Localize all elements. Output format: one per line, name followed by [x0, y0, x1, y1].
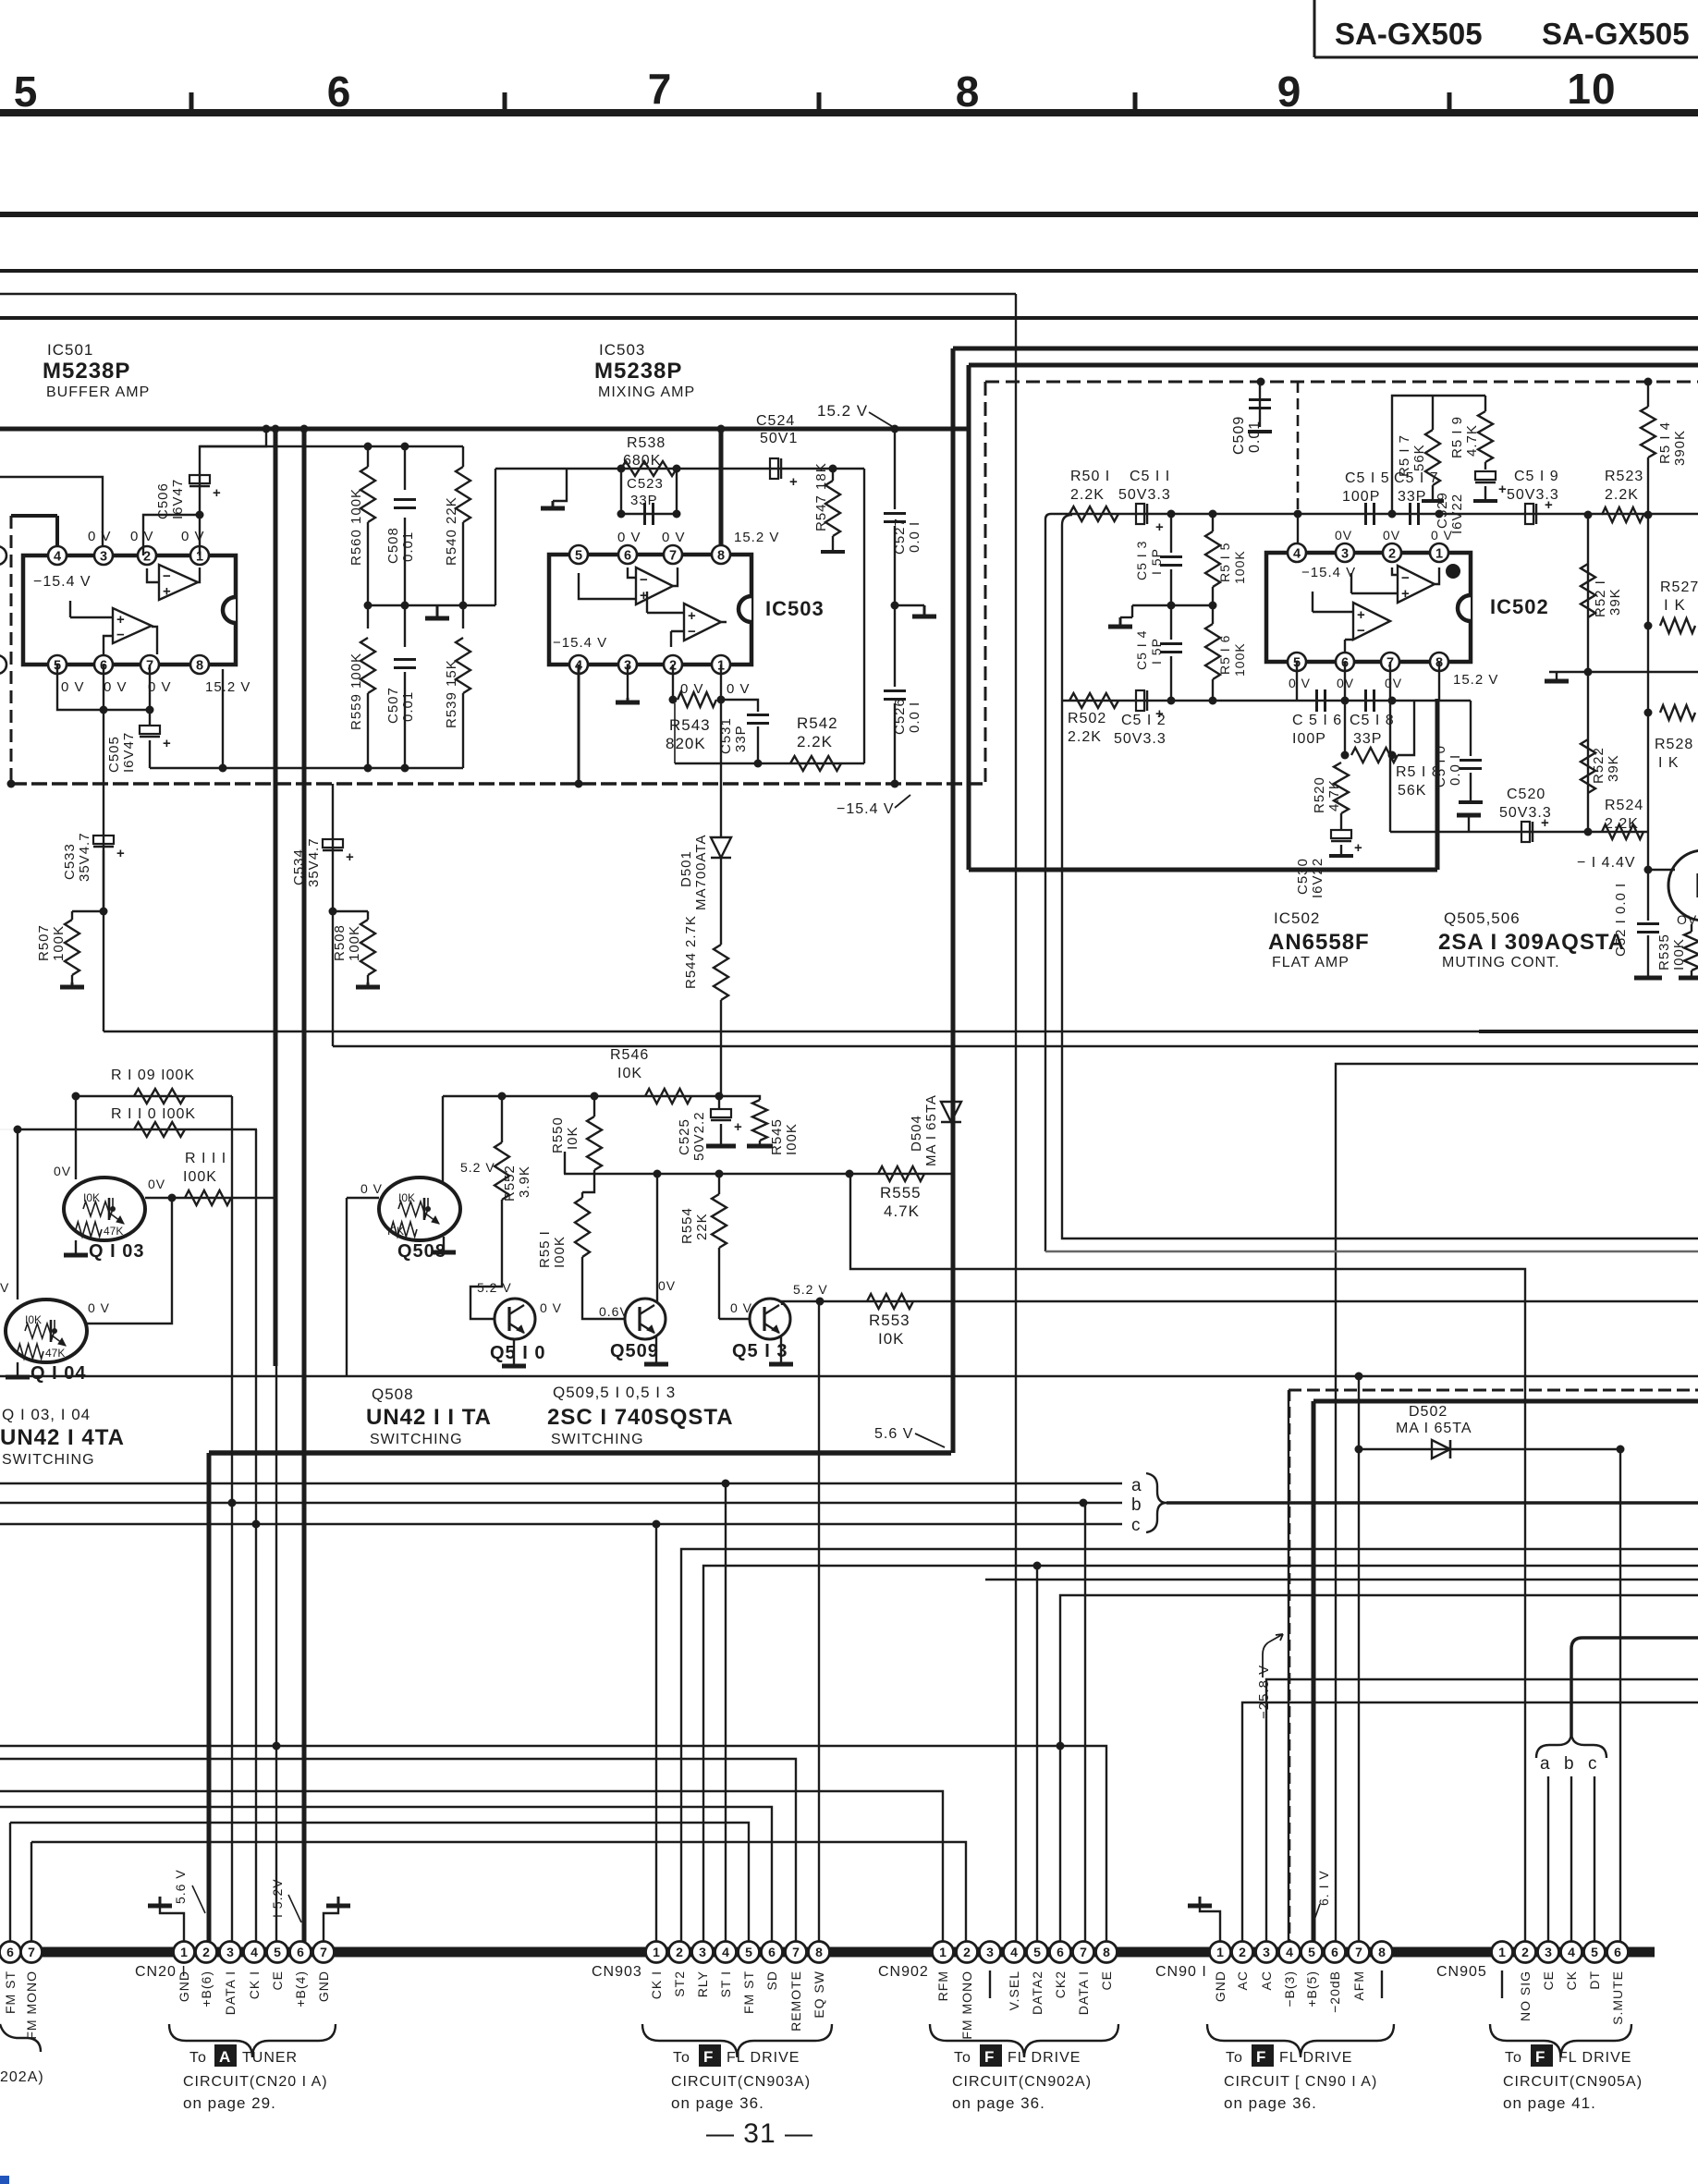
IC503 pin 8 [712, 545, 730, 564]
IC503 pin 3 [618, 655, 637, 674]
inner block border left edge [967, 365, 971, 870]
capacitor C527 0.01 [884, 512, 906, 515]
Q104 internal base resistor [25, 1324, 55, 1338]
svg-text:6: 6 [624, 549, 631, 564]
connector CN903 pin 5 [739, 1942, 760, 1963]
line c [0, 1523, 1122, 1525]
svg-text:SWITCHING: SWITCHING [551, 1432, 644, 1447]
svg-text:4: 4 [250, 1945, 258, 1959]
IC503 pin 7 [664, 545, 682, 564]
bus wire [0, 269, 1698, 273]
connector CN201 pin 7 [313, 1942, 335, 1963]
thick vertical +B(4) 15.2V rail [302, 429, 307, 1952]
svg-text:c: c [1588, 1754, 1598, 1774]
resistor R111 100K [185, 1190, 231, 1205]
svg-text:R522: R522 [1591, 747, 1606, 784]
svg-text:I6V22: I6V22 [1310, 858, 1325, 898]
wire AFM riser [1358, 1449, 1360, 1952]
svg-text:SD: SD [764, 1970, 779, 1990]
IC501 pin 6 [94, 655, 113, 674]
Q509 emitter ground [655, 1336, 657, 1364]
IC502 pin 3 [1336, 543, 1354, 562]
capacitor C507 [404, 605, 406, 647]
mid ground wire [1549, 671, 1698, 673]
IC503 pin 2 [664, 655, 682, 674]
svg-text:R546: R546 [610, 1047, 649, 1063]
svg-text:−15.4 V: −15.4 V [1301, 565, 1356, 580]
svg-text:CN902: CN902 [878, 1964, 929, 1980]
Q103 internals [112, 1198, 114, 1209]
resistor R501 2.2K [1069, 506, 1118, 521]
svg-text:6: 6 [1331, 1945, 1338, 1959]
junction on dashed border [1257, 378, 1265, 386]
connector CN201 pin 5 [267, 1942, 288, 1963]
thick +B(6) drop [207, 1453, 212, 1952]
svg-text:3: 3 [226, 1945, 234, 1959]
resistor R546 10K [645, 1089, 691, 1104]
leader 6.1V [1313, 1904, 1320, 1922]
resistor R521 39K zigzag [1581, 564, 1595, 617]
svg-text:CK I: CK I [247, 1970, 262, 1999]
svg-text:a: a [1131, 1476, 1142, 1495]
resistor R519 4.7K [1484, 396, 1486, 411]
svg-text:15.2 V: 15.2 V [817, 402, 868, 420]
svg-text:15.2 V: 15.2 V [205, 679, 250, 695]
svg-text:4.7K: 4.7K [1326, 779, 1342, 811]
decoupling column wire [894, 429, 896, 509]
svg-text:+: + [163, 584, 171, 600]
svg-text:on page 36.: on page 36. [952, 2094, 1045, 2112]
svg-text:on page 36.: on page 36. [1224, 2094, 1317, 2112]
C520 wire [1390, 831, 1649, 833]
svg-text:CN903: CN903 [592, 1964, 642, 1980]
thick wire to mute bus [969, 868, 1437, 872]
pin5 wire [1296, 662, 1298, 701]
junctions [1167, 510, 1176, 519]
wire SD y1955 [0, 1807, 772, 1952]
connector CN902 pin 6 [1050, 1942, 1071, 1963]
wire pin4 stub [1297, 514, 1299, 553]
svg-text:To: To [1226, 2050, 1243, 2066]
junction [1584, 511, 1593, 519]
svg-text:47K: 47K [104, 1225, 123, 1238]
svg-text:SWITCHING: SWITCHING [2, 1452, 95, 1468]
svg-text:C527: C527 [892, 518, 908, 555]
svg-text:7: 7 [1080, 1945, 1087, 1959]
svg-text:on page 36.: on page 36. [671, 2094, 764, 2112]
pin8 thick drop [1435, 699, 1440, 870]
svg-text:−25.8 V: −25.8 V [1256, 1665, 1272, 1719]
svg-text:I00K: I00K [784, 1123, 800, 1155]
ground stub near pin7 net [1468, 815, 1470, 832]
resistor R522 39K zigzag [1581, 739, 1595, 793]
svg-text:R540 22K: R540 22K [444, 496, 459, 566]
svg-text:To: To [189, 2050, 207, 2066]
-20dB feed wire [1336, 1064, 1698, 1952]
block border (thick) top edge [953, 347, 1698, 351]
op-amp IC501b wires [70, 601, 157, 658]
label blank [1381, 1970, 1383, 1998]
svg-text:CN905: CN905 [1436, 1964, 1487, 1980]
svg-text:50V2.2: 50V2.2 [691, 1111, 707, 1161]
svg-text:5.2 V: 5.2 V [460, 1160, 495, 1175]
dashed block border top edge [985, 381, 1698, 384]
resistor R545 100K [719, 1096, 760, 1100]
leader -25.8V [1263, 1634, 1283, 1678]
resistor R542 2.2K [790, 756, 841, 771]
Q508 internal base resistor [398, 1202, 428, 1216]
svg-text:I6V47: I6V47 [121, 732, 137, 773]
R518/R520 net [1344, 701, 1346, 755]
connector CN902 pin 4 [1004, 1942, 1025, 1963]
svg-text:0V: 0V [1383, 528, 1400, 543]
capacitor C510 0.01 [1470, 701, 1472, 756]
connector CN905 pin 4 [1561, 1942, 1582, 1963]
CN201 pin7 ground wire [324, 1906, 338, 1942]
svg-text:6: 6 [297, 1945, 304, 1959]
thick mute return corner [209, 1450, 951, 1456]
IC501 notch [223, 597, 236, 623]
svg-text:ST2: ST2 [672, 1970, 687, 1997]
junction [891, 780, 899, 788]
connector CN905 pin 5 [1584, 1942, 1606, 1963]
R110 wire [18, 1129, 257, 1130]
svg-text:−20dB: −20dB [1327, 1970, 1342, 2013]
feedback bottom wire [675, 763, 864, 764]
wire pin7 net [146, 706, 154, 714]
Q513 collector wire [782, 1301, 820, 1305]
svg-text:IC503: IC503 [765, 597, 825, 620]
resistor R551 100K [581, 1192, 583, 1198]
svg-text:0V: 0V [148, 1177, 165, 1191]
svg-text:Q508: Q508 [372, 1385, 414, 1403]
wire FM MONO y1993 [31, 1842, 966, 1952]
transistor Q104 (digital) [6, 1299, 87, 1362]
connector CN903 pin 8 [809, 1942, 830, 1963]
connector CN902 pin 7 [1073, 1942, 1094, 1963]
wire C534 net [332, 784, 334, 911]
capacitor C511 50V3.3 (electrolytic) [1136, 504, 1144, 524]
connector CN902 pin 5 [1027, 1942, 1048, 1963]
wire RFM y1938 [0, 1791, 943, 1952]
wire a to CN905 [1547, 1776, 1549, 1952]
svg-text:−B(3): −B(3) [1282, 1970, 1297, 2007]
svg-text:22K: 22K [694, 1213, 710, 1240]
svg-text:I0K: I0K [83, 1191, 100, 1204]
svg-text:SA-GX505: SA-GX505 [1335, 17, 1483, 51]
junction [891, 602, 899, 610]
svg-text:+: + [346, 849, 355, 865]
svg-text:0 V: 0 V [540, 1300, 562, 1315]
svg-text:2: 2 [1521, 1945, 1529, 1959]
svg-text:V: V [0, 1280, 9, 1295]
svg-text:5: 5 [1308, 1945, 1315, 1959]
Q103 internal resistor 47K [76, 1222, 102, 1237]
svg-text:7: 7 [28, 1945, 35, 1959]
svg-text:6: 6 [1614, 1945, 1621, 1959]
svg-text:202A): 202A) [0, 2069, 44, 2085]
svg-text:8: 8 [1103, 1945, 1110, 1959]
svg-text:CE: CE [270, 1970, 285, 1990]
svg-text:R535: R535 [1656, 933, 1672, 970]
wire to R508 [333, 910, 368, 912]
svg-text:2: 2 [1239, 1945, 1246, 1959]
svg-text:Q509: Q509 [610, 1341, 659, 1361]
svg-text:0 V: 0 V [727, 681, 751, 697]
Q508 emitter [424, 1213, 439, 1224]
transistor Q505 (muting) [1668, 850, 1698, 921]
capacitor C517 33P [1409, 503, 1411, 525]
svg-text:OV: OV [1677, 912, 1697, 927]
CN201 pin1 ground wire [160, 1906, 184, 1942]
dashed box left edge [10, 516, 13, 784]
Q508 collector riser [442, 1096, 444, 1183]
svg-text:To: To [1505, 2050, 1522, 2066]
wire AC pin2 net [1242, 1702, 1698, 1952]
To F FL DRIVE text CN901 [1252, 2044, 1274, 2067]
capacitor C523 33P [620, 469, 622, 514]
svg-text:2: 2 [1388, 547, 1396, 562]
svg-text:2.2K: 2.2K [797, 733, 833, 750]
svg-text:FL DRIVE: FL DRIVE [727, 2050, 800, 2066]
IC503 notch [739, 596, 751, 622]
capacitor C534 (electrolytic) [323, 839, 343, 848]
svg-text:I00P: I00P [1292, 731, 1326, 747]
svg-text:FL DRIVE: FL DRIVE [1558, 2050, 1631, 2066]
vertical R521/R522 [1587, 515, 1589, 832]
svg-text:3: 3 [699, 1945, 706, 1959]
IC501 pin 4 [48, 546, 67, 565]
wire DATA1 riser CN201 [231, 1096, 233, 1952]
resistor R559 100K [367, 605, 369, 628]
svg-text:R552: R552 [502, 1165, 518, 1202]
connector CN903 pin 7 [786, 1942, 807, 1963]
svg-text:C5 I I: C5 I I [1130, 469, 1170, 484]
svg-text:35V4.7: 35V4.7 [77, 832, 92, 882]
junction [1584, 828, 1593, 836]
ground mid [1131, 605, 1133, 617]
svg-text:4.7K: 4.7K [1464, 424, 1480, 457]
svg-text:c: c [1131, 1516, 1142, 1535]
resistor R523 2.2K [1602, 507, 1643, 522]
IC502 pin 5 [1288, 653, 1306, 671]
connector CN202 pin 7 [21, 1942, 43, 1963]
junction on 15.2V rail [272, 425, 280, 433]
svg-text:SWITCHING: SWITCHING [370, 1432, 463, 1447]
svg-text:CN90 I: CN90 I [1155, 1964, 1207, 1980]
svg-text:33P: 33P [733, 725, 749, 752]
svg-text:0 V: 0 V [148, 679, 172, 695]
svg-text:0.6V: 0.6V [599, 1304, 629, 1319]
brace CN202 partial [0, 2024, 41, 2052]
IC501 pin 7 [140, 655, 159, 674]
svg-text:C506: C506 [155, 482, 171, 519]
svg-text:UN42 I I TA: UN42 I I TA [366, 1405, 492, 1430]
svg-text:CIRCUIT(CN902A): CIRCUIT(CN902A) [952, 2074, 1092, 2090]
svg-text:CE: CE [1541, 1970, 1556, 1990]
wire DATA2 riser [1036, 1566, 1038, 1952]
wire y1676 to ST2 [681, 1549, 1698, 1952]
svg-text:a: a [1540, 1754, 1551, 1774]
svg-text:FL DRIVE: FL DRIVE [1279, 2050, 1352, 2066]
svg-text:R553: R553 [869, 1312, 910, 1329]
connector CN201 pin 6 [290, 1942, 312, 1963]
wire to node at x1099 [0, 293, 1016, 295]
capacitor C508 [404, 446, 406, 490]
IC502 body outline [1266, 553, 1471, 662]
resistor R527 1K [1660, 618, 1695, 633]
R553 line to page right [820, 1300, 1698, 1302]
capacitor C514 15P [1170, 605, 1172, 640]
svg-text:ST I: ST I [718, 1970, 733, 1997]
svg-text:GND: GND [1213, 1970, 1228, 2002]
IC502 pin 1 [1430, 543, 1448, 562]
wire R544 down [720, 1000, 722, 1096]
svg-text:I6V47: I6V47 [170, 479, 186, 519]
junction on 15.2V rail [891, 425, 899, 433]
thick display box left [1312, 1401, 1316, 1952]
svg-text:+: + [1401, 586, 1410, 602]
Q103 emitter [109, 1213, 124, 1224]
svg-text:2: 2 [676, 1945, 683, 1959]
connector CN901 pin 2 [1232, 1942, 1253, 1963]
svg-text:EQ SW: EQ SW [812, 1970, 826, 2019]
svg-text:5.2 V: 5.2 V [793, 1282, 828, 1297]
ruler tick [189, 92, 194, 109]
IC503 pin 1 [712, 655, 730, 674]
svg-text:50V3.3: 50V3.3 [1507, 487, 1559, 503]
svg-text:2.2K: 2.2K [1605, 816, 1639, 832]
IC502 pin 7 [1381, 653, 1399, 671]
svg-text:0 V: 0 V [88, 1300, 110, 1315]
svg-text:5: 5 [274, 1945, 281, 1959]
svg-text:6: 6 [1057, 1945, 1064, 1959]
connector CN201 pin 2 [196, 1942, 217, 1963]
D502 net wire [1359, 1448, 1624, 1450]
leader 15.2V [288, 1895, 301, 1922]
IC502 pin 8 [1430, 653, 1448, 671]
capacitor C529 16V22 (electrolytic) [1475, 471, 1496, 480]
svg-text:5: 5 [14, 67, 39, 116]
IC503 pin 6 [618, 545, 637, 564]
svg-text:I00K: I00K [552, 1236, 568, 1268]
junction on 15.2V rail [717, 425, 726, 433]
+15.2V supply rail [0, 427, 969, 432]
svg-text:DT: DT [1587, 1970, 1602, 1990]
riser R507 column to bus [103, 911, 104, 1031]
svg-text:BUFFER AMP: BUFFER AMP [46, 384, 150, 400]
svg-text:8: 8 [717, 549, 725, 564]
capacitor C520 50V3.3 (electrolytic) [1521, 822, 1530, 842]
svg-text:0 V: 0 V [130, 529, 154, 544]
svg-text:CK I: CK I [649, 1970, 664, 1999]
connector CN905 pin 1 [1492, 1942, 1513, 1963]
wire y1694 to RLY [703, 1566, 1698, 1952]
switch block frame bottom [0, 1375, 1698, 1377]
bus wire mid 1 [104, 1031, 1698, 1032]
op-amp b wires [1313, 592, 1353, 662]
capacitor C524 50V1 (electrolytic) [770, 458, 778, 479]
thick vertical +B rail A [274, 429, 278, 1366]
Q508 ground [443, 1237, 445, 1252]
svg-text:0.01: 0.01 [400, 691, 416, 722]
CN901 pin1 ground wire [1200, 1906, 1220, 1942]
svg-text:5: 5 [745, 1945, 752, 1959]
op-amp IC501b [113, 608, 152, 643]
svg-text:−15.4 V: −15.4 V [553, 635, 607, 651]
resistor R520 4.7K [1334, 763, 1349, 813]
op-amp IC502b [1353, 603, 1390, 640]
svg-text:I00K: I00K [183, 1169, 217, 1185]
Q104 left wires [0, 1129, 18, 1130]
svg-text:6: 6 [6, 1945, 14, 1959]
NO SIG wire [850, 1174, 1525, 1952]
svg-text:CIRCUIT [ CN90 I A): CIRCUIT [ CN90 I A) [1224, 2074, 1377, 2090]
svg-text:DATA I: DATA I [223, 1970, 238, 2015]
svg-text:−: − [163, 568, 171, 584]
svg-text:FM ST: FM ST [3, 1970, 18, 2014]
wire riser x1149 with corner [1062, 515, 1698, 1238]
svg-text:Q505,506: Q505,506 [1444, 909, 1521, 927]
wire EQ SW riser [818, 1301, 820, 1952]
svg-text:C530: C530 [1295, 858, 1311, 895]
capacitor C531 33P [721, 700, 758, 712]
connector CN905 pin 3 [1538, 1942, 1559, 1963]
svg-text:D502: D502 [1409, 1404, 1448, 1420]
To F FL DRIVE text CN905 [1531, 2044, 1553, 2067]
svg-text:I0K: I0K [617, 1066, 642, 1081]
junction R547 [829, 465, 837, 473]
svg-text:3: 3 [100, 550, 107, 565]
wire Q104 to R111 node [87, 1198, 172, 1324]
svg-text:on page 41.: on page 41. [1503, 2094, 1596, 2112]
svg-text:1: 1 [180, 1945, 188, 1959]
svg-text:−15.4 V: −15.4 V [33, 574, 92, 590]
connector CN903 pin 2 [669, 1942, 690, 1963]
wire CE riser CN201 [275, 1198, 277, 1952]
op-amp b wires [647, 592, 727, 647]
svg-text:5.6 V: 5.6 V [874, 1426, 913, 1442]
resistor R543 820K wire [672, 665, 674, 700]
wire D501 to R544 [720, 859, 722, 945]
IC502 pin 4 [1288, 543, 1306, 562]
block border (thick) left edge / 5.6V bus [951, 348, 956, 1453]
junction R528 [1644, 709, 1653, 717]
bus wire [0, 316, 1698, 320]
resistor R515 100K [1212, 514, 1214, 531]
svg-text:MA I 65TA: MA I 65TA [923, 1094, 939, 1166]
riser R508 column to bus [332, 911, 334, 1046]
abc lines left set: line a [0, 1482, 1122, 1484]
svg-text:R524: R524 [1605, 798, 1643, 813]
Q508 top net wire [443, 1095, 719, 1097]
wire x1470 drop [1358, 1376, 1360, 1449]
IC503 pin3 ground [627, 665, 629, 698]
svg-text:R I I I: R I I I [185, 1151, 226, 1166]
resistor R538 680K [621, 461, 677, 476]
brace CN901 group [1207, 2024, 1394, 2057]
svg-text:M5238P: M5238P [43, 359, 130, 384]
svg-text:0V: 0V [1385, 676, 1402, 690]
connector CN905 pin 2 [1515, 1942, 1536, 1963]
svg-text:+: + [163, 736, 172, 751]
svg-text:Q509,5 I 0,5 I 3: Q509,5 I 0,5 I 3 [553, 1384, 676, 1401]
main interconnect bus bar [0, 1947, 1655, 1958]
svg-text:15.2 V: 15.2 V [1453, 672, 1498, 688]
op-amp IC503a wires [579, 567, 678, 599]
IC502 pin 6 [1336, 653, 1354, 671]
svg-text:47K: 47K [45, 1347, 65, 1360]
